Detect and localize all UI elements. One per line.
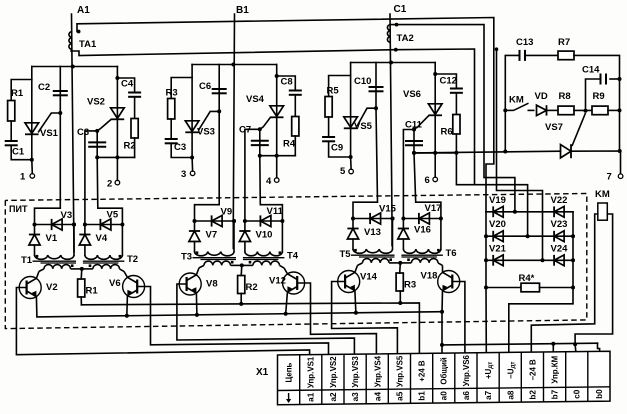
label V4 [96,233,108,244]
svg-text:C13: C13 [516,37,533,48]
wire R3 to C3 [170,119,172,139]
svg-text:C8: C8 [281,77,293,88]
diode V17 [419,213,430,224]
wire VS7 row [414,151,561,153]
svg-text:T5: T5 [340,249,352,260]
wire terminal 5 [350,157,353,169]
label PIT [9,204,28,214]
capacitor C11 [405,141,423,145]
wire fourth sense wire [497,49,543,260]
wire R9 to right rail [608,109,620,111]
wire TA2 secondary a [392,25,515,212]
capacitor C3 [165,139,178,143]
svg-text:Упр.VS1: Упр.VS1 [307,356,316,388]
thyristor VS6 [414,104,442,130]
resistor R2 [238,276,245,294]
wire bus B [192,64,277,66]
resistor R8 [558,106,574,115]
wire +24V rail to b1 [81,303,419,354]
transformer T6 primary winding [400,258,442,265]
thyristor VS1 [25,113,60,134]
junction VS2 cathode bottom [115,155,119,159]
label TA2 [397,33,414,44]
junction TA2 secondary dot [395,23,399,27]
junction bottom node module 6 [412,151,416,155]
terminal 3 [190,171,195,176]
thyristor VS4 [260,106,284,130]
label X1 header a2 [329,356,338,388]
junction left rail V20 [484,234,488,238]
wire subB left branch group 2 [244,221,246,230]
resistor R4 [292,117,299,137]
wire VS2 cathode drive [97,157,122,224]
label V8 [206,279,218,290]
wire V12 base to a4 [297,283,376,354]
wire R2 bottom [240,294,242,304]
label V17 [425,203,442,214]
wire phase B1 [233,14,234,249]
junction right rail C14 [618,77,622,81]
label R3 [166,88,178,99]
junction right rail V21 [571,258,575,262]
diode V3 [52,219,63,230]
diode V24 [554,255,564,266]
label C8 [281,77,293,88]
junction rail subA right group 3 [391,217,395,221]
label V7 [206,230,218,241]
label X1 header cep [285,363,294,383]
label X1 pin c0 [573,389,582,399]
label X1 header a5 [395,355,404,387]
junction rail subB right group 3 [439,217,443,221]
wire TA1 secondary a [77,18,494,212]
transformer T2 core [83,261,125,263]
svg-text:5: 5 [340,166,346,177]
svg-text:V15: V15 [379,204,397,215]
transformer T5 core [351,255,395,257]
junction branch jog module 2 [115,76,119,80]
svg-text:C10: C10 [354,76,371,87]
svg-text:C2: C2 [38,82,50,93]
svg-text:R8: R8 [559,91,571,102]
wire subA left branch lower group 2 [194,242,196,252]
label R1 [11,88,24,99]
svg-text:X1: X1 [256,367,269,378]
label V18 [421,271,438,282]
label terminal 6 [425,175,430,186]
terminal 4 [274,178,279,183]
label VS7 [545,122,563,133]
junction rail subA right group 1 [72,223,76,227]
svg-text:R1: R1 [11,88,24,99]
terminal 5 [349,169,354,174]
wire C13 to R7 [525,54,558,56]
junction branch jog module 4 [275,74,279,78]
junction rail subB left group 3 [401,217,405,221]
junction V21 row drop [541,258,545,262]
label C1 [394,4,407,15]
label V23 [551,219,568,230]
thyristor VS2 [97,108,124,131]
svg-text:B1: B1 [236,5,249,16]
label C6 [199,81,211,92]
svg-text:V17: V17 [425,203,442,214]
junction emitter rail a0 [440,310,444,314]
junction b7 drop [551,342,555,346]
svg-text:C1: C1 [12,147,25,158]
wire R4 row right [540,287,574,289]
wire C1 to bottom [11,145,32,159]
label C3 [77,127,89,138]
wire subA right branch group 3 [392,219,394,250]
svg-text:T2: T2 [127,254,138,265]
resistor R3 [396,273,403,291]
label R7 [558,37,570,48]
transformer T5 secondary winding [353,249,393,253]
svg-text:V13: V13 [364,227,381,238]
svg-text:a5: a5 [395,391,404,401]
transistor V8 [179,268,201,315]
wire b0 feed [598,343,600,353]
wire R4 row [486,287,521,289]
label R4* [519,273,535,284]
junction center node group 2 [240,263,244,267]
svg-text:V10: V10 [256,230,273,241]
junction rail subA left group 3 [351,217,355,221]
wire C9 to bottom [329,141,351,157]
label C9 [331,143,343,154]
diode V5 [100,219,111,230]
junction V14 emitter rail [354,311,358,315]
wire VS1 gate drive [35,113,61,225]
diode V22 [554,206,564,217]
svg-text:C1: C1 [394,4,407,15]
label V24 [551,243,569,254]
label VS5 [354,121,373,132]
svg-text:VS5: VS5 [354,121,373,132]
wire rail subA group 2 [195,220,235,222]
capacitor C6 [212,89,227,93]
resistor R2 [131,119,138,139]
capacitor C1 [5,141,18,145]
wire subB left branch group 3 [402,219,404,228]
label R4 [283,139,296,150]
label V9 [221,207,233,218]
label VS4 [246,94,265,105]
thyristor VS7 [561,113,586,158]
label KM coil [595,189,610,200]
wire subB left branch lower group 2 [244,242,246,252]
label V15 [379,204,397,215]
label V16 [414,225,431,236]
wire common return row [442,343,598,345]
wire C12 to R6 [455,93,457,115]
svg-text:VS2: VS2 [87,97,105,108]
junction B1-bus [231,63,235,67]
junction phase B rail [232,219,236,223]
diode V11 [260,215,271,226]
label R9 [593,91,605,102]
svg-text:TA1: TA1 [79,39,97,50]
wire VS2 anode line [116,67,118,158]
terminal 2 [115,180,120,185]
wire C3 line [96,131,98,158]
junction module6 row R6 [454,151,458,155]
wire subB right branch group 3 [440,219,442,250]
resistor R7 [558,51,574,60]
junction fourth sense wire tap [495,47,499,51]
wire C2 line [59,67,61,114]
wire VS6 gate drive [403,130,414,219]
label VS2 [87,97,105,108]
terminal 1 [30,174,35,179]
wire R1 bottom [80,297,82,305]
label X1 pin a7 [484,390,493,400]
label C1 [12,147,25,158]
label C11 [405,120,423,131]
label R2 [246,282,258,293]
resistor R3 [168,99,175,120]
transformer T6 core [401,255,443,257]
svg-text:C12: C12 [440,76,457,87]
wire terminal 4 [276,156,278,178]
junction right rail V20 [571,234,575,238]
diode V15 [370,213,381,224]
wire subA left branch group 3 [352,219,354,228]
wire branch jog module 4 [277,76,296,91]
junction gate node VS2 [95,129,99,133]
transformer T3 primary winding [199,261,242,268]
label V13 [364,227,381,238]
wire block right to a8 [509,288,573,354]
svg-text:TA2: TA2 [397,33,414,44]
junction left rail V21 [484,258,488,262]
wire TA1 TA2 secondary common [71,49,528,236]
label X1 header a4 [373,355,382,387]
switch KM contact [505,103,534,110]
junction module6 bottom C11 [412,151,416,155]
junction right rail R9 [618,108,622,112]
svg-text:R1: R1 [86,286,99,297]
wire R2 top [240,265,243,275]
junction TA2 bottom tap [394,48,398,52]
label T3 [181,252,192,263]
svg-text:c0: c0 [573,389,582,399]
junction phase A rail [72,223,76,227]
svg-text:C6: C6 [199,81,211,92]
wire diode row V20-V23 [486,235,573,237]
label terminal 1 [20,172,26,183]
label terminal 5 [340,166,346,177]
wire subB left branch lower group 3 [402,239,404,249]
wire C11 line [413,130,415,153]
thyristor VS3 [185,111,219,132]
wire R4 to bottom row [294,136,296,156]
wire VS6 cathode drive jog [414,153,441,219]
wire diode row V21-V24 [486,259,573,261]
svg-text:R5: R5 [327,86,340,97]
wire R3 top [399,263,402,273]
label C2 [38,82,50,93]
wire R5 to C9 [328,117,330,137]
svg-text:KM: KM [595,189,610,200]
dashed box PIT border [5,194,587,329]
svg-text:V22: V22 [551,195,568,206]
transistor V6 [123,271,145,316]
wire rail subB group 3 [403,218,441,220]
svg-text:Общий: Общий [440,357,449,385]
svg-text:2: 2 [107,179,112,190]
svg-text:V2: V2 [46,282,58,293]
junction V6 emitter rail [125,314,129,318]
diode V16 [398,229,409,240]
label X1 header a0 [440,357,449,385]
wire C4 to R2 [134,97,136,119]
svg-text:b0: b0 [595,389,604,399]
wire subB left branch group 1 [84,225,86,234]
junction rail subB right group 1 [120,223,124,227]
terminal 7 [618,174,623,179]
svg-text:7: 7 [607,172,612,183]
svg-text:R9: R9 [593,91,605,102]
svg-text:R4: R4 [283,139,296,150]
label X1 header a3 [351,356,360,388]
junction bottom node module 1 [30,158,34,162]
junction R8 R9 gate [584,109,588,113]
junction VS4 cathode bottom [275,154,279,158]
junction center node group 1 [80,267,84,271]
label X1 pin b2 [528,390,537,400]
wire V6 base to a2 [137,287,328,355]
label C13 [516,37,533,48]
svg-text:VS7: VS7 [545,122,563,133]
svg-text:V19: V19 [489,195,506,206]
svg-text:Упр.VS2: Упр.VS2 [329,356,338,388]
junction VS6 cathode bottom [433,151,437,155]
label terminal 7 [607,172,612,183]
svg-text:6: 6 [425,175,430,186]
svg-text:a2: a2 [329,392,338,402]
transistor V12 [283,268,305,314]
label R8 [559,91,571,102]
resistor R1 [78,279,85,297]
junction rail subA right group 2 [232,219,236,223]
svg-text:V8: V8 [206,279,218,290]
svg-text:V23: V23 [551,219,568,230]
label V5 [107,210,119,221]
wire subA left branch group 2 [194,221,196,230]
svg-text:VS3: VS3 [197,127,215,138]
svg-text:−24 В: −24 В [528,359,537,381]
label X1 pin arrow [286,393,291,403]
transformer TA2 [387,25,391,43]
svg-text:Упр.VS5: Упр.VS5 [395,355,404,387]
wire phase A1 [72,14,75,252]
label X1 header a7 [484,362,494,379]
svg-text:a7: a7 [484,390,493,400]
wire V18 base to a6 [452,282,465,354]
capacitor C9 [322,137,335,141]
svg-text:V11: V11 [267,206,284,217]
wire terminal 3 [191,158,194,172]
wire VS1 anode line [31,67,33,160]
svg-text:b7: b7 [551,389,560,399]
label R5 [327,86,340,97]
transformer T1 secondary winding [35,255,75,259]
svg-text:1: 1 [20,172,26,183]
transformer T4 core [243,258,285,260]
svg-text:a1: a1 [307,392,316,402]
label C7 [239,125,251,136]
wire R6 to bottom row [455,134,457,153]
label X1 pin a1 [307,392,316,402]
resistor R6 [453,115,460,135]
svg-text:V21: V21 [489,243,507,254]
label V21 [489,243,507,254]
wire subB left branch lower group 1 [84,245,86,255]
label terminal 4 [266,176,272,187]
capacitor C8 [289,91,302,95]
wire R7 to right rail [574,55,620,148]
terminal 6 [433,177,438,182]
wire rail subA group 1 [35,224,75,226]
wire rail subB group 2 [245,220,283,222]
label X1 pin b7 [551,389,560,399]
svg-text:Цепь: Цепь [285,363,294,383]
svg-text:C3: C3 [174,142,186,153]
wire KM rail middle segment [504,110,506,151]
svg-text:T3: T3 [181,252,192,263]
junction a0 and KM return [440,343,444,347]
label KM contact [509,95,524,106]
label VS3 [197,127,215,138]
label X1 header a6 [462,354,471,386]
label terminal 2 [107,179,112,190]
transformer T3 core [193,258,237,260]
resistor R9 [592,106,608,115]
svg-text:a3: a3 [351,392,360,402]
junction bottom node module 4 [258,154,262,158]
svg-text:T6: T6 [446,248,457,259]
wire C14 branch [610,78,620,80]
label X1 pin b1 [418,391,427,401]
wire subA right branch group 1 [73,225,75,256]
svg-text:V6: V6 [109,278,121,289]
junction gate node VS4 [258,127,262,131]
svg-text:+24 В: +24 В [418,360,427,382]
relay coil KM [598,203,608,220]
svg-text:R3: R3 [404,280,416,291]
label T1 [21,255,33,266]
wire rail subB group 1 [85,224,123,226]
junction right rail VS7 row [618,149,622,153]
svg-text:Упр.VS4: Упр.VS4 [373,355,382,387]
label VS1 [40,128,59,139]
wire VS5 gate drive [353,108,378,218]
capacitor C2 [53,91,68,95]
capacitor C13 [520,50,526,61]
wire VS6 anode line [434,63,436,153]
wire subB right branch group 2 [281,221,283,252]
wire VS5 anode line [350,63,352,158]
label X1 header b2 [528,359,537,381]
diode VD [537,105,547,115]
svg-text:a6: a6 [462,391,471,401]
wire VS4 anode line [276,65,278,156]
transformer T3 secondary winding [195,251,235,255]
resistor R4* [521,283,540,292]
label C3 [174,142,186,153]
